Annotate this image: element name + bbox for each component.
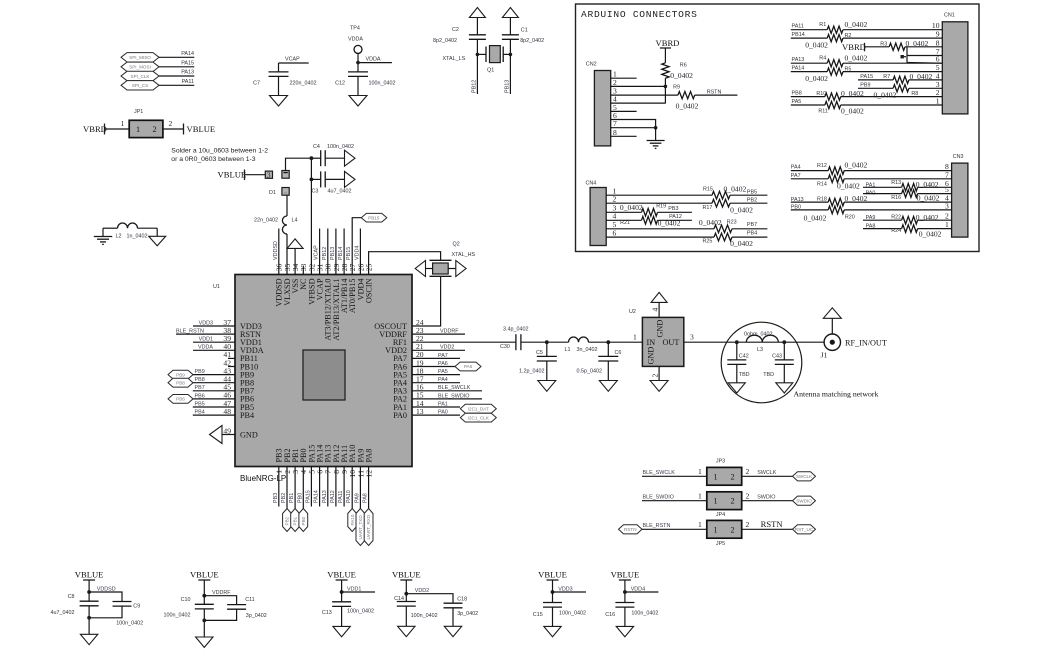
svg-text:VDDA: VDDA — [348, 37, 363, 43]
svg-text:0_0402: 0_0402 — [805, 40, 828, 49]
svg-text:PB3: PB3 — [668, 206, 678, 212]
wire U1 pin 11 bottom — [354, 467, 360, 509]
svg-text:PA14: PA14 — [181, 51, 194, 57]
svg-text:VDD4: VDD4 — [354, 246, 360, 260]
svg-text:OUT: OUT — [663, 338, 680, 347]
wire VDDSD node — [87, 587, 122, 602]
ground — [776, 383, 793, 393]
wire PA0 — [412, 410, 460, 416]
svg-text:1: 1 — [633, 333, 637, 342]
svg-text:1: 1 — [698, 467, 702, 476]
wire J1 power — [831, 318, 833, 334]
ground — [599, 381, 617, 392]
jumper JP3 — [707, 467, 742, 485]
svg-text:PB8: PB8 — [792, 91, 802, 97]
resistor R25 — [606, 231, 767, 249]
jumper JP1 — [129, 109, 163, 138]
svg-text:CN1: CN1 — [944, 13, 955, 19]
svg-text:PB12: PB12 — [322, 247, 328, 260]
resistor R4 — [791, 54, 943, 67]
svg-text:CN4: CN4 — [586, 181, 597, 187]
wire BLE_SWCLK — [412, 385, 482, 391]
wire U1 pin 8 bottom — [330, 467, 336, 507]
svg-text:8: 8 — [936, 38, 940, 47]
wire U1 pin 7 bottom — [322, 467, 328, 507]
svg-text:PA4: PA4 — [438, 377, 448, 383]
svg-text:XTAL_LS: XTAL_LS — [443, 56, 466, 62]
wire CN2 pin 8 — [611, 128, 637, 137]
node PB9 tag — [168, 370, 193, 379]
node UART_RXD tag — [364, 509, 373, 546]
wire RSTN — [695, 89, 738, 95]
svg-text:SWCLK: SWCLK — [796, 474, 813, 479]
wire PB14 top — [338, 229, 344, 275]
svg-text:1: 1 — [936, 97, 940, 106]
crystal Q2 XTAL_HS — [430, 242, 476, 277]
svg-text:9: 9 — [936, 30, 940, 39]
wire OSCIN — [369, 252, 441, 275]
power VBLUE — [190, 570, 219, 593]
svg-text:J1: J1 — [821, 351, 828, 360]
jumper JP4 — [707, 492, 742, 510]
svg-text:0_0402: 0_0402 — [676, 102, 699, 111]
svg-text:PB14: PB14 — [338, 247, 344, 260]
svg-text:C10: C10 — [181, 597, 191, 603]
svg-text:L2: L2 — [116, 234, 122, 240]
wire U1 pin 24 OSCOUT — [412, 276, 441, 326]
ground CN2 — [647, 128, 665, 149]
svg-text:C5: C5 — [536, 350, 543, 356]
svg-text:C7: C7 — [253, 81, 260, 87]
svg-text:C6: C6 — [615, 350, 622, 356]
op-amp U1 BlueNRG-LP body — [213, 275, 412, 484]
svg-text:3: 3 — [267, 170, 271, 179]
svg-text:VCAP: VCAP — [285, 57, 300, 63]
wire CN2 pin 1 — [611, 70, 637, 79]
svg-text:VDDA: VDDA — [198, 345, 213, 351]
wire NC stub — [302, 266, 304, 275]
wire U1 pin 6 bottom — [314, 467, 320, 507]
svg-text:2: 2 — [283, 191, 288, 194]
testpoint TP4 — [348, 26, 363, 54]
svg-text:PA13: PA13 — [792, 57, 805, 63]
wire PA6 — [412, 361, 455, 367]
svg-text:SPI_CS: SPI_CS — [132, 83, 148, 88]
resistor R22 — [863, 213, 952, 224]
node I2C1_DAT tag — [460, 404, 496, 413]
wire RF1 — [412, 341, 516, 343]
wire BLE_SWDIO — [412, 393, 482, 399]
svg-text:PB9: PB9 — [860, 82, 870, 88]
svg-text:0_0402: 0_0402 — [841, 107, 864, 116]
capacitor C42 — [727, 342, 749, 383]
svg-text:R16: R16 — [891, 195, 901, 201]
svg-text:BLE_SWDIO: BLE_SWDIO — [438, 393, 469, 399]
svg-text:R7: R7 — [883, 74, 890, 80]
svg-text:PA1: PA1 — [438, 401, 448, 407]
connector CN2 — [586, 62, 611, 146]
svg-text:PA8: PA8 — [365, 449, 374, 463]
svg-text:PB3: PB3 — [273, 493, 279, 503]
wire PA1 — [412, 401, 460, 407]
svg-text:C4: C4 — [313, 144, 320, 150]
svg-text:VBLUE: VBLUE — [218, 170, 247, 180]
svg-text:PB2: PB2 — [747, 197, 757, 203]
svg-text:PB15: PB15 — [346, 247, 352, 260]
wire U1 pin 47 — [193, 401, 235, 407]
svg-text:PB1: PB1 — [293, 516, 298, 525]
svg-text:RF_IN/OUT: RF_IN/OUT — [845, 339, 887, 348]
wire PA4 — [412, 377, 460, 383]
svg-text:R3: R3 — [880, 41, 887, 47]
ground — [538, 381, 556, 392]
svg-text:2: 2 — [613, 195, 617, 204]
svg-text:PA8: PA8 — [363, 493, 369, 503]
resistor R15 — [606, 184, 767, 199]
wire U1 pin 48 — [193, 410, 235, 416]
wire — [742, 467, 793, 476]
svg-text:PA11: PA11 — [182, 79, 194, 85]
svg-text:C11: C11 — [245, 597, 255, 603]
svg-text:VDDSD: VDDSD — [273, 241, 279, 260]
capacitor C13 — [322, 602, 374, 627]
wire — [156, 228, 158, 236]
svg-text:1: 1 — [698, 492, 702, 501]
svg-text:C2: C2 — [452, 27, 459, 33]
svg-text:VDD1: VDD1 — [347, 587, 361, 593]
svg-text:R4: R4 — [819, 56, 826, 62]
wire PA14 — [159, 51, 194, 57]
ground — [333, 626, 350, 636]
node RST_UC tag — [793, 525, 816, 534]
svg-text:1n_0402: 1n_0402 — [127, 234, 148, 240]
wire VDDSD top — [273, 229, 279, 275]
resistor R17 — [606, 197, 767, 214]
wire PA7 — [412, 353, 460, 359]
power VBLUE — [327, 570, 356, 593]
svg-text:100n_0402: 100n_0402 — [411, 613, 438, 619]
wire — [642, 467, 707, 476]
svg-text:100n_0402: 100n_0402 — [164, 613, 191, 619]
svg-text:1: 1 — [136, 125, 140, 134]
capacitor C12 — [335, 72, 395, 96]
svg-text:PA15: PA15 — [860, 74, 873, 80]
svg-text:XTAL_HS: XTAL_HS — [452, 252, 476, 258]
crystal Q1 XTAL_LS — [443, 46, 513, 74]
svg-text:L4: L4 — [292, 218, 298, 224]
svg-text:R22: R22 — [891, 214, 901, 220]
wire U2 pin2 bottom — [651, 366, 660, 380]
svg-text:3n_0402: 3n_0402 — [577, 347, 598, 353]
power VBLUE — [75, 570, 104, 593]
svg-text:8: 8 — [613, 128, 617, 137]
capacitor C6 — [577, 342, 622, 380]
diode D1 — [269, 188, 289, 197]
power arrow — [823, 308, 841, 319]
svg-text:2: 2 — [731, 525, 735, 534]
power arrow right — [448, 261, 466, 277]
svg-text:PA12: PA12 — [330, 490, 336, 503]
svg-text:R23: R23 — [727, 220, 737, 226]
resistor R21 — [606, 214, 692, 227]
svg-text:TBD: TBD — [763, 372, 774, 378]
svg-text:RSTN: RSTN — [624, 527, 637, 532]
svg-text:VDD4: VDD4 — [631, 587, 645, 593]
svg-text:C1: C1 — [521, 28, 528, 34]
capacitor C3 — [311, 171, 351, 194]
svg-text:R21: R21 — [620, 220, 630, 226]
node PA6 tag — [455, 362, 481, 371]
svg-text:1: 1 — [698, 520, 702, 529]
wire U1 pin 12 bottom — [363, 467, 369, 509]
node JP2 pad1 — [282, 171, 289, 179]
svg-text:100n_0402: 100n_0402 — [369, 81, 396, 87]
svg-text:R19: R19 — [656, 204, 666, 210]
capacitor C2 — [433, 27, 486, 54]
ground — [349, 96, 367, 107]
power arrow — [651, 292, 667, 302]
power VBLUE — [392, 570, 421, 593]
node PA10 tag — [348, 509, 357, 532]
svg-text:IN: IN — [647, 338, 656, 347]
svg-text:0_0402: 0_0402 — [804, 214, 827, 223]
svg-text:OSCIN: OSCIN — [365, 278, 374, 303]
svg-text:VDD3: VDD3 — [558, 587, 572, 593]
svg-text:PB6: PB6 — [195, 393, 205, 399]
wire — [589, 333, 643, 344]
inductor L3 — [744, 332, 778, 353]
inductor L1 — [565, 337, 598, 353]
svg-text:PB4: PB4 — [195, 410, 205, 416]
svg-text:R18: R18 — [817, 197, 827, 203]
connector CN1 — [942, 13, 968, 114]
svg-text:PB12: PB12 — [471, 80, 477, 93]
node PB15 tag — [361, 213, 387, 222]
power VBRD — [656, 38, 680, 63]
svg-text:C30: C30 — [500, 344, 510, 350]
svg-text:PA15: PA15 — [181, 61, 194, 67]
svg-text:TP4: TP4 — [350, 26, 360, 32]
svg-text:PB0: PB0 — [301, 516, 306, 525]
wire — [642, 520, 707, 529]
node antenna matching network — [721, 322, 878, 403]
svg-text:220n_0402: 220n_0402 — [290, 81, 317, 87]
ground — [270, 96, 288, 107]
svg-text:R13: R13 — [891, 180, 901, 186]
svg-text:0_0402: 0_0402 — [730, 239, 753, 248]
wire PA15 — [159, 61, 194, 67]
svg-text:PA13: PA13 — [322, 490, 328, 503]
wire U1 pin 41 — [228, 357, 235, 359]
svg-text:PA10: PA10 — [350, 514, 355, 525]
resistor R2 — [791, 32, 943, 49]
svg-text:VBRD: VBRD — [83, 124, 107, 134]
svg-text:PB2: PB2 — [285, 516, 290, 525]
wire U1 pin 2 bottom — [281, 467, 287, 509]
wire D1 to VFBSD node — [286, 158, 312, 170]
wire PB13 — [504, 54, 510, 94]
svg-text:L1: L1 — [565, 347, 571, 353]
svg-text:RST_UC: RST_UC — [795, 527, 814, 532]
svg-text:PB8: PB8 — [176, 380, 185, 385]
svg-text:100n_0402: 100n_0402 — [116, 620, 143, 626]
svg-text:PB8: PB8 — [195, 377, 205, 383]
power arrow left — [415, 261, 432, 277]
svg-text:C12: C12 — [335, 81, 345, 87]
svg-text:PA6: PA6 — [438, 361, 448, 367]
resistor R16 — [863, 190, 952, 203]
svg-text:U2: U2 — [629, 309, 636, 315]
wire — [664, 78, 668, 103]
svg-text:2: 2 — [746, 520, 750, 529]
node PB6 tag — [168, 395, 193, 404]
svg-text:0_0402: 0_0402 — [670, 71, 693, 80]
svg-text:VBLUE: VBLUE — [392, 570, 421, 580]
svg-text:C8: C8 — [68, 594, 75, 600]
ground — [444, 626, 461, 636]
svg-text:2: 2 — [731, 497, 735, 506]
wire CN2 pin 4 — [611, 95, 666, 104]
svg-text:VBRD: VBRD — [656, 38, 680, 48]
svg-text:VBLUE: VBLUE — [327, 570, 356, 580]
svg-text:PA15: PA15 — [305, 490, 311, 503]
capacitor C16 — [605, 603, 658, 627]
svg-text:L3: L3 — [757, 347, 763, 353]
wire CN2 pin 2 — [611, 78, 666, 87]
node JP2 pad3 — [265, 170, 272, 179]
svg-text:0_0402: 0_0402 — [917, 194, 940, 203]
svg-text:0_0402: 0_0402 — [730, 206, 753, 215]
wire U1 pin 9 bottom — [338, 467, 344, 507]
capacitor CN1 pin7 — [901, 47, 943, 63]
wire — [742, 492, 793, 501]
power arrow — [469, 8, 485, 35]
svg-text:PB6: PB6 — [176, 397, 185, 402]
resistor R12 — [791, 161, 952, 175]
svg-text:2: 2 — [746, 467, 750, 476]
resistor R19 — [606, 203, 692, 216]
wire PB12 top — [322, 229, 328, 275]
resistor R18 — [791, 194, 952, 206]
inductor L2 — [103, 223, 157, 240]
wire U1 pin 3 bottom — [289, 467, 295, 509]
svg-text:VBLUE: VBLUE — [190, 570, 219, 580]
power VBLUE — [218, 170, 266, 181]
svg-text:PA11: PA11 — [338, 491, 344, 503]
resistor R3 — [842, 39, 942, 52]
svg-text:VDD1: VDD1 — [199, 337, 213, 343]
wire U1 pin 40 — [193, 345, 235, 351]
wire CN2 pin 6 — [611, 111, 656, 128]
ground — [80, 634, 97, 644]
svg-text:UART_TXD: UART_TXD — [358, 515, 363, 540]
wire U2 out — [684, 333, 827, 344]
node PB8 tag — [168, 378, 193, 387]
svg-text:100n_0402: 100n_0402 — [327, 144, 354, 150]
svg-text:GND: GND — [647, 347, 656, 365]
svg-text:PA11: PA11 — [792, 24, 804, 30]
svg-text:GND: GND — [656, 320, 665, 338]
svg-text:PA14: PA14 — [792, 66, 805, 72]
svg-text:PA6: PA6 — [464, 364, 473, 369]
svg-text:PB1: PB1 — [289, 493, 295, 503]
svg-text:PB9: PB9 — [176, 372, 185, 377]
capacitor C8 — [51, 594, 99, 635]
svg-text:R6: R6 — [680, 63, 687, 69]
node PB2 tag — [283, 509, 292, 532]
power JP1 VBRD — [83, 124, 107, 135]
resistor R9 — [673, 85, 698, 111]
svg-text:PB13: PB13 — [504, 80, 510, 93]
svg-text:BLE_RSTN: BLE_RSTN — [643, 523, 671, 529]
svg-text:2: 2 — [651, 374, 660, 378]
wire U1 pin 43 — [193, 369, 235, 375]
resistor R7 — [858, 72, 942, 84]
svg-text:6: 6 — [613, 229, 617, 238]
svg-text:TBD: TBD — [739, 372, 750, 378]
svg-text:PB0: PB0 — [297, 493, 303, 503]
svg-text:CN3: CN3 — [953, 154, 964, 160]
svg-text:C42: C42 — [739, 353, 749, 359]
svg-text:R8: R8 — [911, 91, 918, 97]
svg-text:BLE_SWCLK: BLE_SWCLK — [438, 385, 471, 391]
wire — [163, 119, 184, 129]
svg-text:C16: C16 — [605, 612, 615, 618]
wire VDD2 node — [404, 588, 453, 603]
svg-text:1: 1 — [714, 497, 718, 506]
node PB1 tag — [291, 509, 300, 532]
svg-text:SWDIO: SWDIO — [757, 495, 775, 501]
wire — [642, 492, 707, 501]
svg-text:3: 3 — [690, 333, 694, 342]
svg-text:1.2p_0402: 1.2p_0402 — [519, 369, 544, 375]
svg-text:1: 1 — [121, 119, 125, 128]
wire U1 pin 46 — [193, 393, 235, 399]
connector CN3 — [952, 154, 968, 237]
wire VDD4 node — [623, 587, 658, 603]
svg-text:R9: R9 — [673, 85, 680, 91]
svg-text:VBLUE: VBLUE — [187, 124, 216, 134]
wire U1 pin 42 — [228, 366, 235, 368]
capacitor C30 — [500, 326, 528, 350]
wire U1 pin 45 — [193, 385, 235, 391]
svg-text:BLE_SWCLK: BLE_SWCLK — [643, 470, 676, 476]
svg-text:PA9: PA9 — [354, 493, 360, 503]
svg-text:4u7_0402: 4u7_0402 — [328, 189, 352, 195]
capacitor C4 — [311, 144, 354, 166]
svg-text:U1: U1 — [213, 284, 220, 290]
ground — [196, 637, 213, 647]
capacitor C15 — [533, 603, 586, 627]
svg-text:R15: R15 — [703, 187, 713, 193]
power VBLUE — [611, 570, 640, 593]
wire U1 pin 39 — [193, 337, 235, 343]
svg-text:PB14: PB14 — [792, 32, 805, 38]
capacitor C14 — [394, 596, 437, 626]
svg-text:RSTN: RSTN — [707, 89, 722, 95]
note text — [171, 148, 268, 164]
wire U1 pin 5 bottom — [305, 467, 311, 507]
wire PB12 — [471, 54, 477, 94]
svg-text:100n_0402: 100n_0402 — [559, 611, 586, 617]
wire — [521, 340, 569, 344]
svg-text:PA4: PA4 — [791, 165, 801, 171]
svg-text:2: 2 — [731, 472, 735, 481]
svg-text:VDD3: VDD3 — [199, 320, 213, 326]
svg-text:PA7: PA7 — [791, 173, 801, 179]
resistor R1 — [791, 20, 943, 33]
wire VDD3 node — [551, 587, 586, 603]
